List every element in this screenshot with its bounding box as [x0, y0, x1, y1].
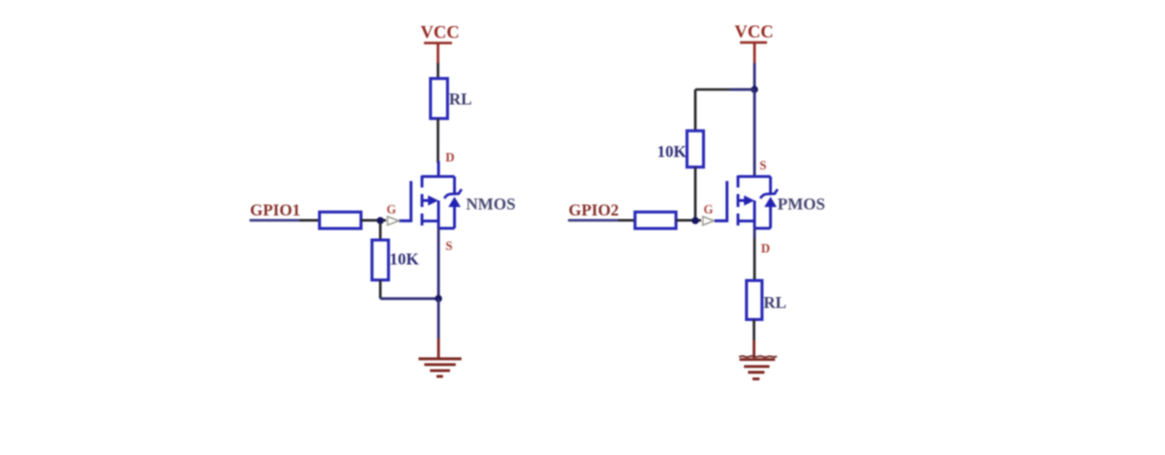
svg-text:NMOS: NMOS [466, 195, 516, 214]
wire VCC node to 10K branch (right, horizontal) [730, 88, 755, 91]
power symbol VCC (left) [424, 43, 452, 63]
svg-text:VCC: VCC [735, 22, 774, 42]
junction gate node (left) [377, 217, 384, 224]
svg-text:10K: 10K [657, 142, 687, 161]
svg-text:D: D [761, 242, 770, 256]
svg-text:D: D [446, 151, 455, 165]
wire VCC to node (right) [753, 63, 756, 90]
resistor RL (right) [747, 281, 763, 320]
svg-text:PMOS: PMOS [778, 195, 826, 214]
wire 10K down (left) [379, 280, 382, 299]
wire VCC to RL (left) [437, 63, 440, 79]
watermark smudge above ground (right) [739, 356, 777, 357]
svg-text:G: G [387, 203, 397, 217]
wire node to ground (left) [437, 299, 440, 338]
wire 10K branch down (right, vertical) [694, 90, 697, 131]
wire RL to drain (left) [437, 119, 440, 164]
gate buffer triangle (left) [388, 217, 399, 226]
wire 10K to gate node (right) [694, 167, 697, 218]
resistor 10K (right) [687, 131, 704, 167]
gate buffer triangle (right) [703, 217, 714, 226]
wire source pin down (left) [437, 228, 440, 298]
junction source node (left) [435, 295, 442, 302]
wire gate node to 10K (left) [379, 223, 382, 240]
wire 10K to source node (left) [380, 297, 438, 300]
svg-text:G: G [704, 203, 714, 217]
junction VCC node (right) [751, 86, 758, 93]
svg-text:RL: RL [764, 293, 787, 312]
svg-text:GPIO2: GPIO2 [569, 201, 619, 220]
wire R2 to gate node (right) [676, 219, 701, 222]
svg-text:10K: 10K [390, 250, 420, 269]
wire GPIO2 stub [568, 219, 618, 222]
svg-text:GPIO1: GPIO1 [250, 201, 300, 220]
transistor Q1 NMOS [399, 161, 462, 228]
resistor R2 series (right) [635, 212, 676, 229]
resistor R1 series (left) [320, 212, 362, 229]
power symbol VCC (right) [740, 43, 767, 64]
resistor 10K (left) [372, 240, 389, 280]
wire R1 to gate node (left) [361, 219, 386, 222]
junction gate node (right) [692, 217, 699, 224]
transistor Q2 PMOS [715, 176, 778, 229]
svg-text:S: S [446, 239, 453, 253]
wire drain to RL (right) [753, 228, 756, 238]
wire RL to ground (right) [753, 320, 756, 341]
wire S pin (right) [753, 90, 756, 177]
wire GPIO1 to R1 [300, 219, 320, 222]
svg-text:RL: RL [449, 90, 472, 109]
wire GPIO1 stub [250, 219, 300, 222]
resistor RL (left) [431, 79, 448, 119]
ground (left) [419, 359, 462, 377]
svg-text:S: S [760, 159, 767, 173]
svg-text:VCC: VCC [421, 22, 460, 42]
wire GPIO2 to R2 [618, 219, 635, 222]
ground (right) [740, 360, 776, 379]
